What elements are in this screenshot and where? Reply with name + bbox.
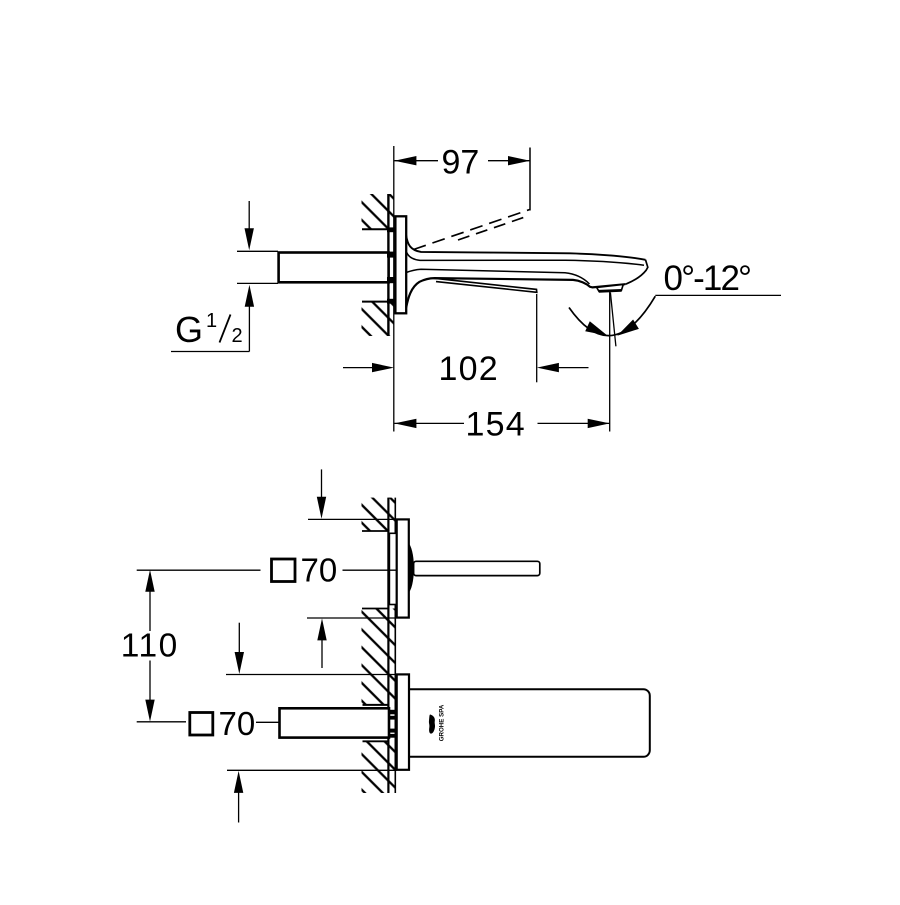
svg-text:0°-12°: 0°-12°	[664, 259, 751, 298]
svg-text:G: G	[175, 309, 203, 350]
svg-text:110: 110	[121, 628, 179, 665]
svg-text:2: 2	[232, 325, 243, 347]
svg-text:GROHE SPA: GROHE SPA	[439, 704, 446, 741]
svg-text:1: 1	[206, 310, 217, 332]
svg-text:70: 70	[219, 705, 256, 742]
svg-text:97: 97	[442, 144, 480, 182]
svg-text:70: 70	[301, 552, 338, 589]
svg-text:102: 102	[439, 350, 499, 388]
svg-text:154: 154	[466, 405, 526, 443]
